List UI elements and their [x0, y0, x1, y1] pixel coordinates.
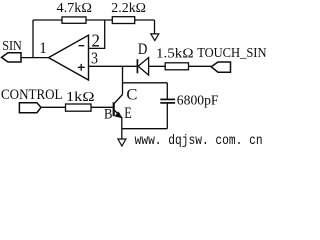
wire emitter bottom rail [122, 128, 168, 130]
svg-text:4.7kΩ: 4.7kΩ [57, 1, 93, 16]
wire ground stem bottom [121, 129, 123, 139]
svg-text:6800pF: 6800pF [177, 93, 219, 108]
svg-text:E: E [124, 105, 132, 122]
wire diode to 1.5k resistor [149, 65, 166, 67]
diode D cathode bar [136, 59, 138, 73]
wire 1.5k to TOUCH_SIN tag [189, 65, 212, 67]
wire emitter vertical [121, 117, 123, 129]
capacitor C1 top plate [160, 98, 175, 100]
resistor 2.2k body [112, 17, 134, 24]
transistor Q1 base bar [113, 102, 115, 116]
wire collector node to capacitor top [123, 82, 168, 84]
svg-text:D: D [138, 41, 148, 58]
svg-text:SIN: SIN [2, 39, 22, 54]
transistor collector diagonal [115, 95, 123, 104]
wire capacitor bottom lead [166, 103, 168, 128]
resistor 1k body [66, 104, 92, 111]
port tag SIN [2, 53, 22, 62]
svg-text:1kΩ: 1kΩ [66, 90, 95, 105]
wire node down to collector [122, 66, 124, 94]
port tag CONTROL [19, 103, 41, 113]
svg-text:CONTROL: CONTROL [1, 87, 63, 103]
op-amp U1 triangle [49, 35, 89, 80]
svg-text:1.5kΩ: 1.5kΩ [156, 47, 194, 62]
wire feedback vertical to output node [32, 20, 34, 58]
resistor 4.7k body [62, 17, 86, 23]
svg-text:TOUCH_SIN: TOUCH_SIN [197, 46, 266, 61]
wire top feedback/divider rail [33, 19, 155, 21]
capacitor C1 bottom plate [160, 102, 175, 104]
wire capacitor top lead [166, 83, 168, 99]
svg-text:B: B [104, 107, 113, 123]
svg-text:3: 3 [91, 49, 98, 68]
wire 2.2k to ground drop [154, 20, 156, 34]
transistor emitter diagonal [115, 110, 122, 117]
wire pin 3 to diode [89, 65, 138, 67]
resistor 1.5k body [165, 63, 188, 70]
svg-text:2.2kΩ: 2.2kΩ [111, 1, 146, 16]
diode D triangle [138, 58, 148, 76]
op-amp minus sign [79, 45, 85, 47]
op-amp plus sign [78, 64, 85, 71]
wire output to SIN tag [21, 57, 49, 59]
ground top right [151, 34, 159, 41]
ground bottom [118, 139, 126, 146]
wire junction down to pin 2 [89, 20, 105, 48]
port tag TOUCH_SIN [211, 62, 230, 72]
svg-text:1: 1 [39, 40, 47, 57]
svg-text:C: C [126, 86, 137, 103]
transistor emitter arrowhead [115, 111, 123, 118]
wire CONTROL tag to 1k to base [41, 106, 113, 108]
svg-text:www. dqjsw. com. cn: www. dqjsw. com. cn [135, 133, 263, 149]
